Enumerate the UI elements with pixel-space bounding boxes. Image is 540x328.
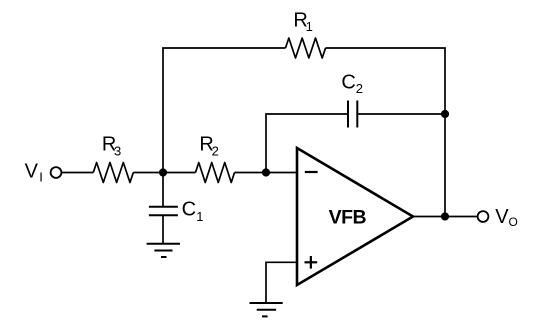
wire C2 to node C [357, 113, 445, 115]
svg-text:O: O [509, 215, 518, 229]
label VO [495, 206, 518, 229]
wire R3 to node A [133, 172, 163, 174]
wire node A to R2 [163, 172, 196, 174]
wire node B up to C2 [266, 114, 348, 173]
label R1 [293, 9, 312, 34]
node B [262, 168, 270, 176]
ground below C1 [147, 244, 180, 257]
svg-text:1: 1 [196, 209, 203, 224]
wire node B to op-amp inverting input [266, 172, 297, 174]
ground below op-amp [250, 303, 283, 316]
label R2 [199, 134, 218, 159]
capacitor C1 [149, 207, 178, 216]
svg-text:2: 2 [356, 81, 363, 96]
wire R1 to node C [326, 48, 446, 114]
wire VI to R3 [62, 172, 94, 174]
wire node A up to R1 [163, 48, 286, 173]
label VFB [329, 207, 367, 229]
svg-text:2: 2 [212, 143, 219, 158]
node D [441, 212, 449, 220]
svg-text:C: C [341, 72, 355, 94]
wire node C to node D [444, 114, 446, 217]
terminal VO [478, 211, 489, 222]
resistor R1 [286, 38, 326, 58]
wire C1 to ground [162, 215, 164, 244]
wire op-amp output to node D [413, 216, 445, 218]
svg-text:I: I [39, 170, 43, 185]
svg-text:C: C [182, 199, 196, 221]
wire node A to C1 [162, 173, 164, 207]
wire non-inverting input to ground [266, 262, 297, 303]
wire R2 to node B [235, 172, 267, 174]
label VI [25, 161, 43, 185]
terminal VI [51, 167, 62, 178]
label C1 [182, 199, 204, 224]
svg-text:1: 1 [306, 19, 313, 34]
capacitor C2 [348, 101, 357, 128]
node A [159, 168, 167, 176]
resistor R2 [196, 163, 235, 183]
node C [441, 110, 449, 118]
svg-text:3: 3 [114, 143, 121, 158]
svg-text:VFB: VFB [329, 207, 367, 229]
non-inverting input plus sign [305, 256, 318, 269]
resistor R3 [93, 163, 133, 183]
inverting input minus sign [305, 171, 318, 173]
svg-text:V: V [25, 161, 39, 183]
wire node D to terminal VO [445, 216, 478, 218]
label R3 [102, 134, 121, 159]
svg-text:V: V [495, 206, 509, 228]
label C2 [341, 72, 363, 97]
op-amp U1 [297, 148, 413, 285]
